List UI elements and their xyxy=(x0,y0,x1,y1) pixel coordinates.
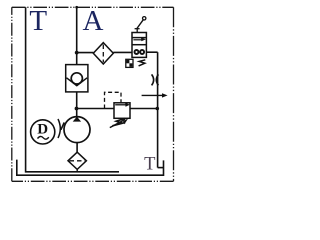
lever valve body xyxy=(132,33,146,58)
wire: right line drain into tank xyxy=(158,167,164,169)
junction: A line at boundary xyxy=(75,6,78,9)
wire: suction filter stub xyxy=(76,169,78,171)
lever valve detent (checkered box) xyxy=(126,59,133,67)
wire: right return line (vertical) xyxy=(157,52,159,167)
svg-text:T: T xyxy=(29,5,47,37)
throttle (restriction) arcs xyxy=(152,74,154,85)
coupling motor-pump xyxy=(58,119,60,138)
wire: T return line (left vertical) xyxy=(26,7,119,172)
wire: branch to filter xyxy=(77,52,94,54)
enclosure boundary (chain line) xyxy=(12,7,174,181)
wire: pump suction xyxy=(76,143,78,153)
check valve xyxy=(66,65,88,92)
relief valve flow arrow xyxy=(115,104,126,106)
pump outlet triangle xyxy=(73,117,81,122)
reservoir (tank) xyxy=(17,160,164,176)
pump P1 xyxy=(64,117,90,143)
relief valve adjustable spring xyxy=(110,119,125,127)
wire: check valve to pump xyxy=(76,92,78,117)
svg-text:A: A xyxy=(83,5,104,37)
junction: A line / filter branch xyxy=(75,51,79,55)
lever handle xyxy=(143,17,146,20)
check valve seat tip xyxy=(74,84,80,87)
svg-text:D: D xyxy=(37,121,48,137)
wire: relief branch (left) xyxy=(77,108,115,110)
svg-text:T: T xyxy=(144,155,155,175)
lever valve return spring xyxy=(139,60,146,66)
electric motor M1 xyxy=(31,120,55,144)
lever valve position: ball circles xyxy=(135,50,139,54)
wire: A port line (vertical) xyxy=(76,7,78,64)
filter (pressure line) xyxy=(93,43,113,64)
junction: pump outlet / relief branch xyxy=(75,107,79,111)
relief valve pilot line (dashed) xyxy=(105,92,122,108)
relief valve body xyxy=(114,103,130,119)
wire: filter to lever valve xyxy=(113,51,132,53)
flow direction arrow (tap) xyxy=(142,94,163,96)
wire: relief to right line xyxy=(130,108,158,110)
wire: lever valve to right line xyxy=(146,51,157,53)
suction filter xyxy=(68,152,86,169)
lever valve flow arrow xyxy=(133,39,141,41)
junction: right line / relief xyxy=(156,107,160,111)
